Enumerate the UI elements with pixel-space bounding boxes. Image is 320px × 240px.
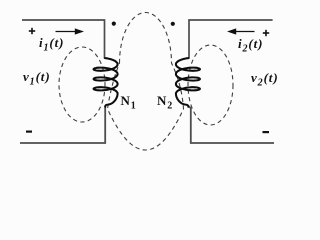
current arrow i2 (points left) xyxy=(227,28,255,34)
label v1(t) xyxy=(23,69,51,85)
label N2 xyxy=(157,93,173,109)
leakage flux ellipse phi_L2 around right coil xyxy=(188,45,233,125)
wire: left circuit top conductor xyxy=(22,20,105,59)
mutual flux line phi_M (big dashed loop threading both coils) xyxy=(108,12,184,150)
inductor L1 winding (coil N1) xyxy=(94,58,118,107)
wire: right circuit bottom conductor xyxy=(188,106,274,143)
label i2(t) xyxy=(238,36,263,52)
label N1 xyxy=(121,93,137,109)
current arrow i1 (points right) xyxy=(56,28,85,34)
minus sign v2 xyxy=(263,131,270,133)
minus sign v1 xyxy=(26,131,32,133)
plus sign v1 xyxy=(29,28,35,34)
wire: right circuit top conductor xyxy=(189,20,273,59)
polarity dot at coil N2 xyxy=(171,22,175,26)
leakage flux ellipse phi_L1 around left coil xyxy=(59,47,105,122)
plus sign v2 xyxy=(263,30,269,36)
inductor L2 winding (coil N2) xyxy=(176,58,200,107)
wire: left circuit bottom conductor xyxy=(20,106,105,143)
label i1(t) xyxy=(39,35,64,51)
polarity dot at coil N1 xyxy=(112,22,116,26)
label v2(t) xyxy=(251,70,279,86)
